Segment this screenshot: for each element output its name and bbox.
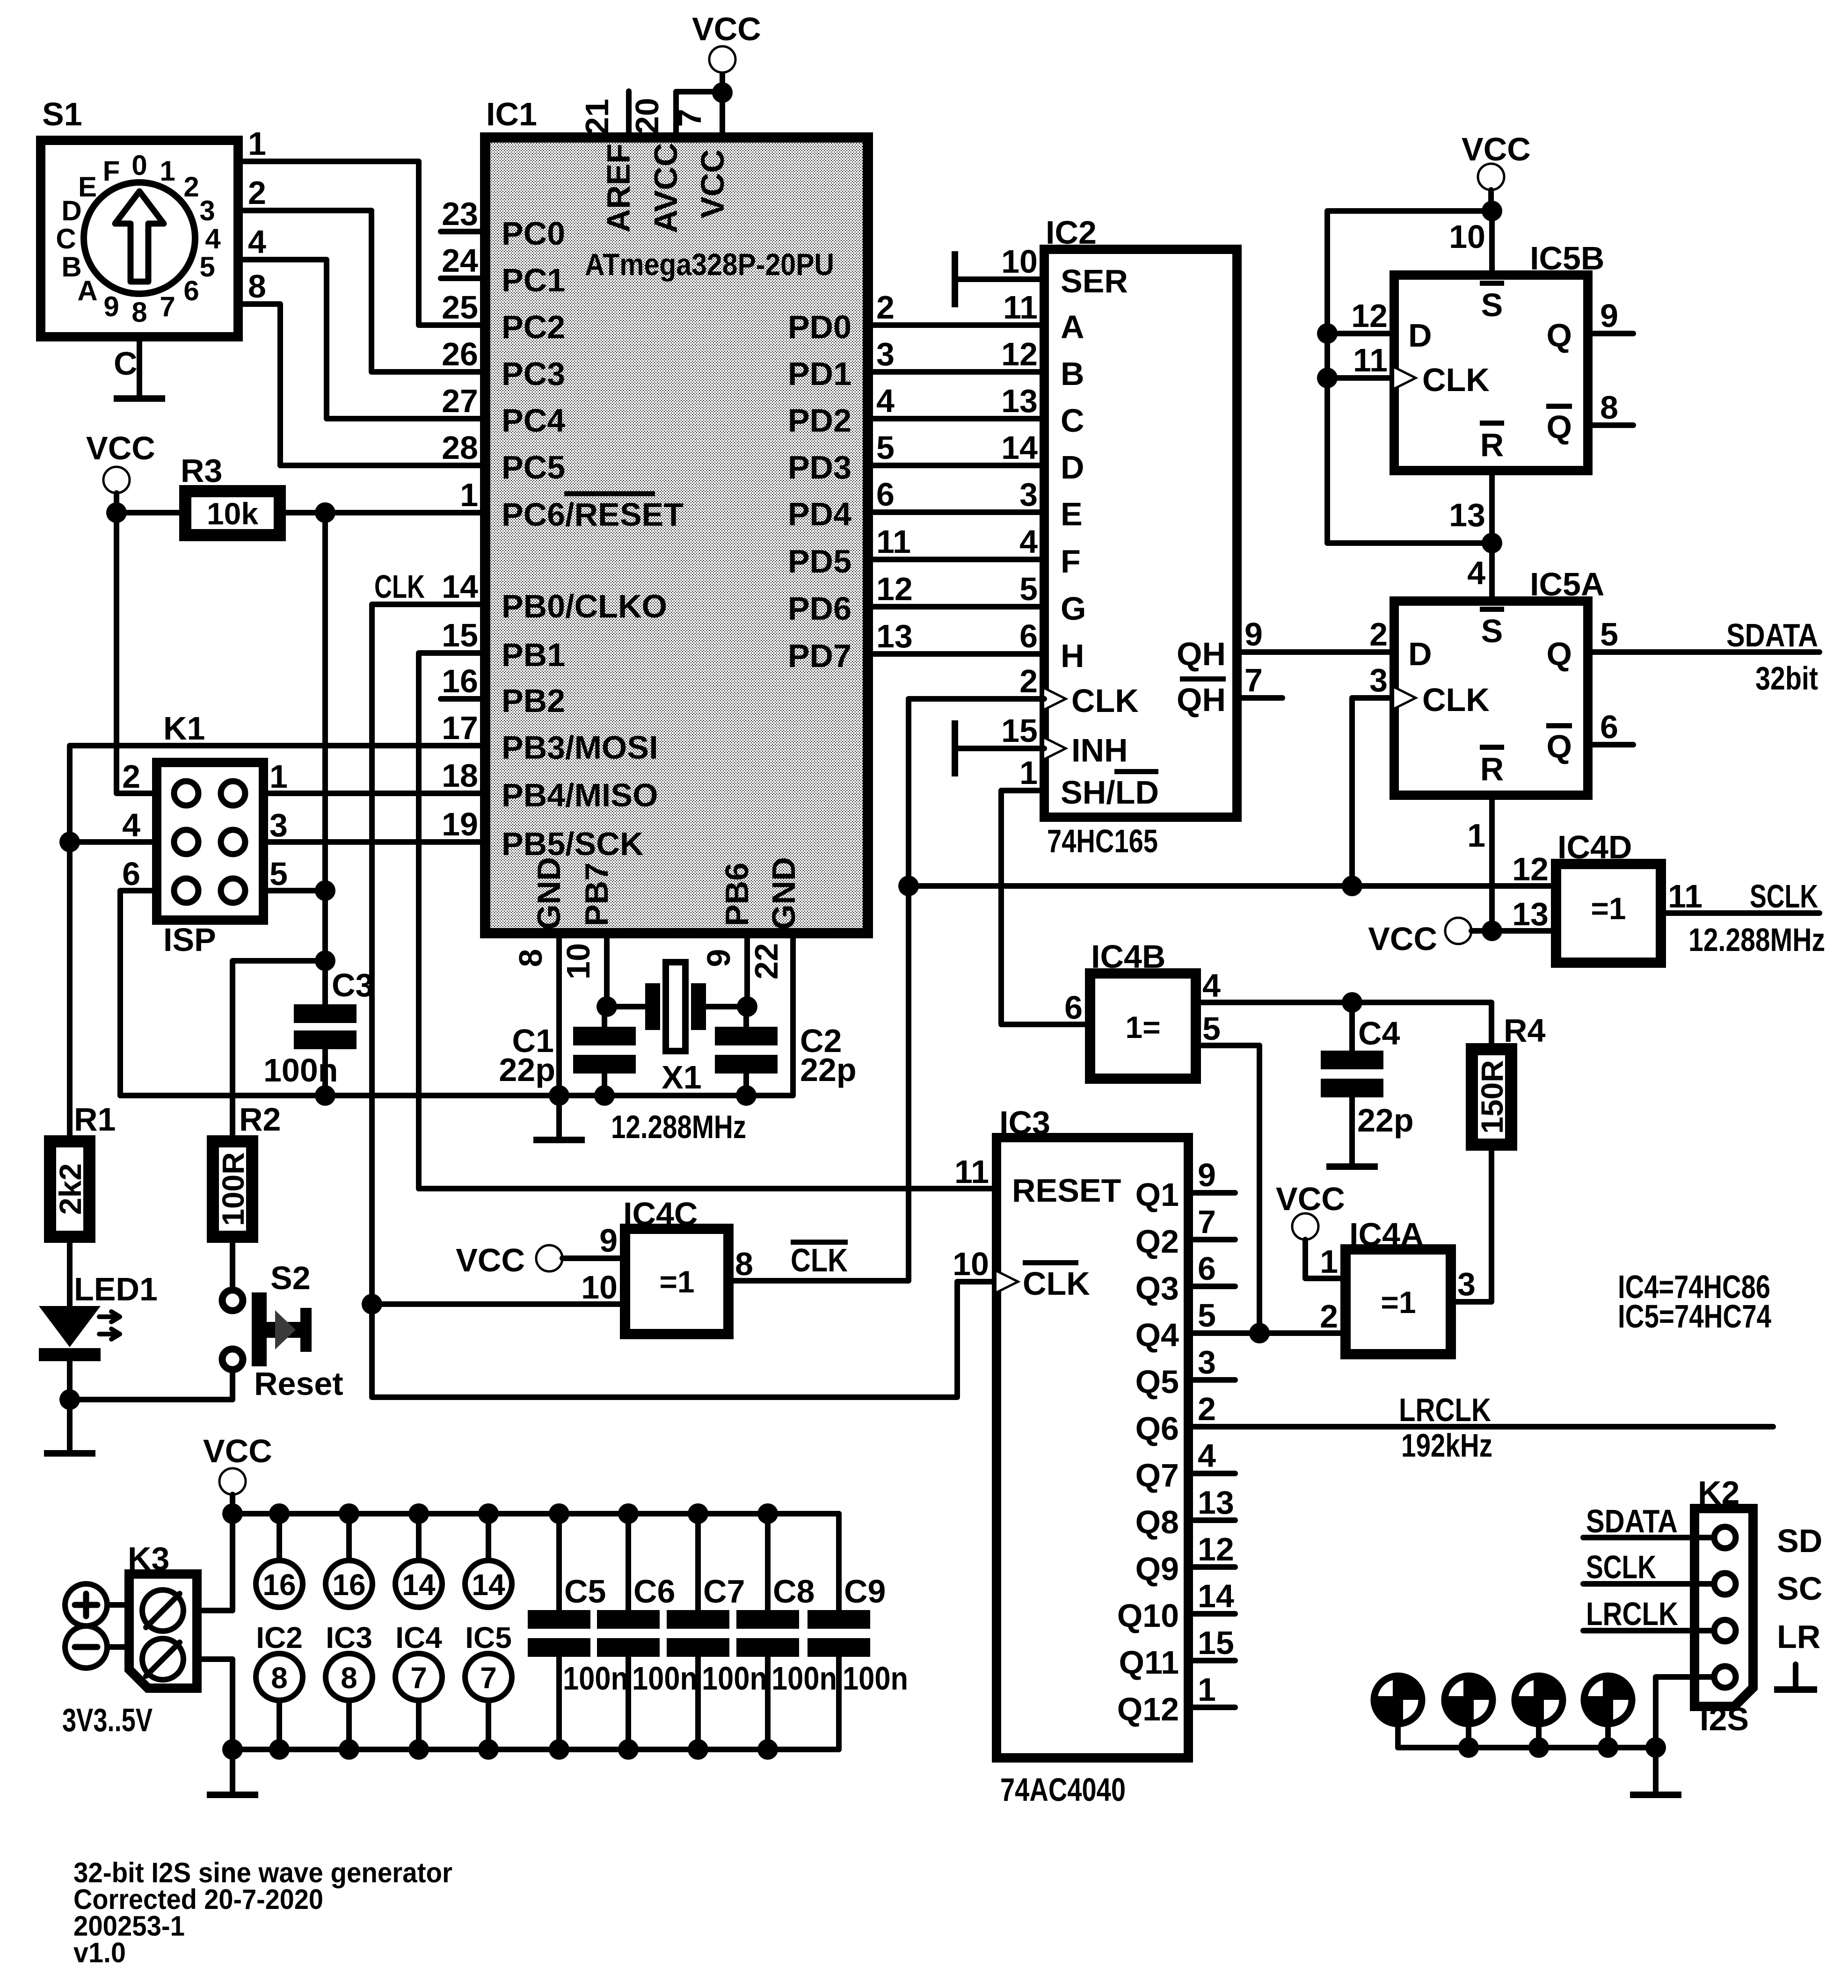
svg-text:VCC: VCC bbox=[203, 1433, 272, 1469]
svg-text:5: 5 bbox=[1019, 571, 1038, 607]
note IC4 IC5 part types bbox=[1618, 1269, 1771, 1335]
power pin IC5 VCC pin 14 bbox=[465, 1514, 512, 1607]
wire R2 bottom to S2 bbox=[230, 1243, 235, 1288]
svg-text:PB6: PB6 bbox=[719, 863, 755, 926]
svg-text:PD1: PD1 bbox=[788, 356, 851, 392]
wire S1 pin 2 to IC1 PC3 bbox=[238, 210, 485, 372]
test point TP1 bbox=[1374, 1676, 1422, 1748]
wire VCC to IC5B S-bar node bbox=[1488, 190, 1494, 211]
wire IC5B R-bar pin 13 stub bbox=[1489, 471, 1495, 543]
svg-text:G: G bbox=[1061, 590, 1086, 627]
wire to IC5B CLK pin 11 bbox=[1327, 375, 1394, 381]
junction Q4 net bbox=[1249, 1323, 1270, 1343]
svg-text:2k2: 2k2 bbox=[53, 1163, 87, 1215]
resistor R3 10k bbox=[179, 452, 286, 541]
IC IC1 ATmega328P-20PU bbox=[374, 96, 913, 979]
ground at IC2 INH bbox=[952, 720, 1044, 776]
wire IC4D output SCLK bbox=[1661, 910, 1819, 916]
junction test point bus bbox=[1458, 1737, 1479, 1758]
svg-text:10: 10 bbox=[1001, 243, 1038, 280]
wire IC2 QH to IC5A D bbox=[1237, 649, 1394, 655]
power pin IC2 VCC pin 16 bbox=[256, 1514, 303, 1607]
svg-text:3: 3 bbox=[1198, 1344, 1216, 1380]
svg-text:PC3: PC3 bbox=[502, 356, 565, 392]
wire R1 to LED1 bbox=[67, 1243, 73, 1306]
svg-text:100n: 100n bbox=[563, 1660, 628, 1697]
svg-text:F: F bbox=[1061, 543, 1081, 580]
junction RESET net at R3 bbox=[315, 502, 335, 523]
wire CLK-bar to IC5A CLK pin 3 bbox=[1352, 698, 1394, 886]
junction MOSI at K1 pin4 bbox=[59, 832, 80, 852]
junction C4 tap bbox=[1342, 992, 1362, 1013]
svg-text:Q: Q bbox=[1547, 409, 1572, 445]
pin stub IC3 Q11 bbox=[1188, 1658, 1235, 1663]
wire IC5B R-bar node to IC5A S-bar pin 4 bbox=[1489, 543, 1495, 601]
VCC symbol at IC4D pin 13 bbox=[1368, 918, 1471, 957]
svg-text:VCC: VCC bbox=[694, 149, 731, 218]
svg-text:12: 12 bbox=[876, 571, 913, 607]
junction VCC rail at C7 bbox=[688, 1503, 708, 1524]
svg-text:IC5: IC5 bbox=[465, 1621, 512, 1654]
svg-text:IC3: IC3 bbox=[326, 1621, 372, 1654]
svg-text:E: E bbox=[1061, 496, 1083, 532]
plus terminal symbol bbox=[65, 1584, 107, 1626]
pin stub IC3 Q7 bbox=[1188, 1471, 1235, 1476]
wire VCC to IC4D pin 13 bbox=[1471, 928, 1556, 934]
wire ground distribution rail bbox=[233, 1747, 839, 1752]
svg-text:QH: QH bbox=[1177, 682, 1226, 718]
ground marker at K2 pin 4 bbox=[1774, 1664, 1817, 1693]
svg-text:S2: S2 bbox=[270, 1260, 311, 1296]
svg-text:100n: 100n bbox=[771, 1660, 837, 1697]
svg-text:1: 1 bbox=[269, 758, 288, 795]
wire S1 pin 1 to IC1 PC2 bbox=[238, 161, 485, 325]
power pin IC2 GND pin 8 bbox=[256, 1654, 303, 1749]
svg-text:3: 3 bbox=[1369, 662, 1388, 698]
junction VCC at IC1 top bbox=[712, 82, 733, 103]
svg-text:PD6: PD6 bbox=[788, 590, 851, 627]
svg-text:9: 9 bbox=[103, 291, 119, 322]
XOR gate IC4A bbox=[1320, 1216, 1476, 1354]
svg-text:A: A bbox=[1061, 309, 1084, 345]
svg-text:6: 6 bbox=[876, 476, 895, 513]
svg-text:VCC: VCC bbox=[1462, 131, 1531, 167]
wire S2 bottom to LED node bbox=[70, 1371, 233, 1400]
svg-text:6: 6 bbox=[1019, 618, 1038, 654]
wire MOSI net down to R1 bbox=[67, 842, 73, 1135]
svg-text:D: D bbox=[1408, 636, 1432, 672]
junction ground rail at IC4 bbox=[408, 1739, 429, 1760]
svg-text:32bit: 32bit bbox=[1755, 660, 1818, 697]
junction VCC rail at C5 bbox=[549, 1503, 569, 1524]
svg-text:PD0: PD0 bbox=[788, 309, 851, 345]
svg-text:R: R bbox=[1480, 427, 1504, 463]
junction ground rail at C6 bbox=[618, 1739, 639, 1760]
wire IC2 SH/LD to IC4B output bbox=[1001, 791, 1090, 1024]
rotary switch S1 bbox=[41, 96, 266, 382]
svg-text:11: 11 bbox=[1668, 878, 1702, 914]
svg-text:4: 4 bbox=[1019, 523, 1038, 560]
XOR gate IC4B bbox=[1064, 938, 1221, 1079]
svg-text:192kHz: 192kHz bbox=[1401, 1427, 1492, 1464]
VCC symbol at IC4A pin 1 bbox=[1276, 1181, 1345, 1240]
wire IC3 Q4 to IC4A pin 2 bbox=[1188, 1330, 1346, 1336]
svg-text:C: C bbox=[114, 345, 138, 382]
svg-text:12: 12 bbox=[1351, 297, 1388, 334]
connector K2 I2S bbox=[1695, 1474, 1753, 1737]
svg-text:Q12: Q12 bbox=[1117, 1691, 1179, 1727]
svg-text:11: 11 bbox=[1003, 289, 1038, 326]
junction crystal left bbox=[597, 996, 617, 1017]
junction VCC rail at IC4 bbox=[408, 1503, 429, 1524]
junction test point bus bbox=[1528, 1737, 1549, 1758]
wire IC1 PD0 to IC2 A bbox=[868, 322, 1044, 328]
svg-text:PC1: PC1 bbox=[502, 262, 565, 298]
junction IC5B CLK tap bbox=[1317, 368, 1338, 388]
wire to IC5B D pin 12 bbox=[1327, 331, 1394, 336]
wire K3 bottom to ground rail bbox=[197, 1659, 233, 1749]
svg-text:PC5: PC5 bbox=[502, 449, 565, 486]
wire IC1 PD2 to IC2 C bbox=[868, 416, 1044, 421]
svg-text:=1: =1 bbox=[659, 1264, 694, 1299]
power pin IC3 GND pin 8 bbox=[326, 1654, 372, 1749]
svg-text:18: 18 bbox=[442, 757, 478, 794]
junction CLK net at IC4C input bbox=[362, 1294, 382, 1314]
svg-text:11: 11 bbox=[954, 1154, 989, 1190]
svg-text:3V3..5V: 3V3..5V bbox=[62, 1702, 153, 1738]
svg-text:I2S: I2S bbox=[1700, 1701, 1749, 1737]
wire K1 pin5 to RESET net bbox=[263, 888, 325, 893]
svg-text:74HC165: 74HC165 bbox=[1047, 823, 1158, 859]
XOR gate IC4C bbox=[581, 1196, 753, 1334]
svg-text:13: 13 bbox=[1198, 1484, 1234, 1521]
svg-text:VCC: VCC bbox=[692, 11, 761, 47]
wire IC1 pin10 PB7 to crystal bbox=[604, 933, 610, 1007]
svg-text:C3: C3 bbox=[332, 967, 373, 1003]
pin stub IC3 Q1 bbox=[1188, 1190, 1235, 1196]
junction ground rail at C5 bbox=[549, 1739, 569, 1760]
svg-text:K1: K1 bbox=[163, 710, 205, 747]
wire S1 pin 8 to IC1 PC5 bbox=[238, 304, 485, 465]
svg-text:11: 11 bbox=[876, 523, 911, 560]
svg-text:23: 23 bbox=[442, 196, 478, 232]
svg-text:12: 12 bbox=[1001, 336, 1038, 372]
svg-text:CLK: CLK bbox=[1023, 1265, 1090, 1302]
wire IC5B preset rail left/top bbox=[1327, 211, 1492, 543]
svg-text:Q2: Q2 bbox=[1135, 1223, 1179, 1260]
svg-text:5: 5 bbox=[269, 856, 288, 892]
svg-text:8: 8 bbox=[735, 1246, 753, 1282]
svg-text:SCLK: SCLK bbox=[1586, 1549, 1656, 1585]
svg-text:INH: INH bbox=[1071, 732, 1128, 769]
svg-text:IC1: IC1 bbox=[486, 96, 537, 132]
flip-flop IC5B bbox=[1351, 218, 1618, 533]
junction RESET/C3/R2 node bbox=[315, 950, 335, 971]
svg-text:C9: C9 bbox=[844, 1573, 886, 1610]
wire R3 right to IC1 pin1 RESET bbox=[286, 510, 485, 515]
capacitor C8 100n bbox=[736, 1514, 837, 1749]
svg-text:VCC: VCC bbox=[456, 1242, 525, 1278]
wire IC2 CLK pin 2 to CLK-bar net bbox=[909, 699, 1044, 886]
wire S1 common to ground bbox=[137, 337, 142, 395]
wire ground rail under IC1 bbox=[120, 933, 793, 1096]
svg-text:LR: LR bbox=[1777, 1618, 1820, 1655]
resistor R1 2k2 bbox=[44, 1101, 116, 1243]
capacitor C3 100n bbox=[263, 961, 373, 1096]
svg-text:4: 4 bbox=[1198, 1437, 1216, 1474]
svg-text:C: C bbox=[56, 223, 76, 254]
junction IC5A R-bar / IC4D pin13 / VCC bbox=[1482, 921, 1502, 941]
svg-text:3: 3 bbox=[269, 807, 288, 843]
pin stub IC5B Q-bar pin 8 bbox=[1588, 422, 1633, 428]
svg-text:22p: 22p bbox=[1357, 1102, 1414, 1139]
svg-text:Q6: Q6 bbox=[1135, 1410, 1179, 1447]
IC IC2 74HC165 bbox=[1001, 214, 1263, 859]
svg-text:10: 10 bbox=[953, 1246, 989, 1282]
svg-text:7: 7 bbox=[160, 291, 175, 322]
svg-text:ATmega328P-20PU: ATmega328P-20PU bbox=[585, 247, 834, 282]
svg-text:14: 14 bbox=[442, 568, 478, 605]
svg-text:F: F bbox=[103, 155, 120, 187]
wire plus to K3 bbox=[107, 1602, 129, 1608]
svg-text:8: 8 bbox=[1600, 389, 1618, 426]
junction VCC rail at IC5 bbox=[478, 1503, 499, 1524]
svg-text:13: 13 bbox=[1512, 896, 1549, 932]
junction ground rail at IC2 bbox=[269, 1739, 290, 1760]
svg-text:R: R bbox=[1480, 751, 1504, 787]
svg-text:D: D bbox=[1061, 449, 1084, 486]
svg-text:Q7: Q7 bbox=[1135, 1457, 1179, 1494]
svg-text:1=: 1= bbox=[1125, 1010, 1160, 1045]
svg-text:H: H bbox=[1061, 638, 1084, 674]
wire S1 pin 4 to IC1 PC4 bbox=[238, 260, 485, 419]
svg-text:1: 1 bbox=[160, 155, 175, 187]
svg-text:GND: GND bbox=[531, 857, 567, 930]
svg-text:=1: =1 bbox=[1381, 1285, 1416, 1320]
wire IC3 Q6 output LRCLK bbox=[1188, 1424, 1773, 1429]
power pin IC4 VCC pin 14 bbox=[395, 1514, 442, 1607]
svg-text:CLK: CLK bbox=[1422, 362, 1490, 398]
svg-text:C5: C5 bbox=[564, 1573, 606, 1610]
svg-text:4: 4 bbox=[1202, 967, 1221, 1004]
wire R3 left to VCC node bbox=[116, 510, 179, 515]
wire R4 bottom to IC4A output bbox=[1451, 1151, 1491, 1302]
junction ground rail at C8 bbox=[757, 1739, 778, 1760]
svg-text:R3: R3 bbox=[181, 452, 222, 489]
wire IC1 pin8 GND stub bbox=[556, 933, 562, 1096]
svg-text:=1: =1 bbox=[1591, 891, 1626, 926]
svg-text:6: 6 bbox=[1064, 989, 1083, 1026]
wire IC1 pin 20 AVCC to VCC node bbox=[676, 92, 722, 138]
svg-text:14: 14 bbox=[402, 1568, 436, 1602]
svg-text:12.288MHz: 12.288MHz bbox=[1688, 921, 1825, 958]
svg-text:Q10: Q10 bbox=[1117, 1597, 1179, 1634]
svg-text:SH/LD: SH/LD bbox=[1061, 774, 1159, 811]
VCC symbol at IC4C pin 9 bbox=[456, 1242, 562, 1278]
capacitor C5 100n bbox=[528, 1514, 628, 1749]
wire K1 pin6 to ground rail bbox=[120, 891, 157, 1096]
capacitor C7 100n bbox=[667, 1514, 767, 1749]
wire LED1 cathode to ground node bbox=[67, 1361, 73, 1400]
svg-text:S1: S1 bbox=[42, 96, 82, 132]
svg-text:10: 10 bbox=[581, 1269, 618, 1306]
wire SDATA to K2 bbox=[1583, 1535, 1714, 1540]
svg-text:4: 4 bbox=[248, 224, 266, 260]
svg-text:R1: R1 bbox=[74, 1101, 116, 1138]
junction CLK-bar at IC2 branch bbox=[898, 876, 919, 896]
junction VCC rail at C6 bbox=[618, 1503, 639, 1524]
svg-text:8: 8 bbox=[512, 949, 549, 967]
wire K3 top to VCC rail bbox=[197, 1514, 233, 1611]
svg-text:1: 1 bbox=[1320, 1243, 1338, 1280]
svg-text:LRCLK: LRCLK bbox=[1399, 1392, 1491, 1428]
net label LRCLK 192kHz bbox=[1399, 1392, 1492, 1464]
svg-text:Q: Q bbox=[1547, 317, 1572, 354]
svg-text:2: 2 bbox=[876, 289, 895, 326]
test point TP2 bbox=[1445, 1676, 1492, 1748]
svg-text:VCC: VCC bbox=[1368, 921, 1437, 957]
svg-text:0: 0 bbox=[131, 150, 147, 181]
pin stub IC3 Q2 bbox=[1188, 1237, 1235, 1242]
connector K3 power terminal bbox=[128, 1540, 197, 1688]
svg-text:PC2: PC2 bbox=[502, 309, 565, 345]
junction ground rail at IC5 bbox=[478, 1739, 499, 1760]
svg-text:6: 6 bbox=[1600, 709, 1618, 745]
svg-text:25: 25 bbox=[442, 289, 478, 326]
svg-text:100n: 100n bbox=[263, 1052, 338, 1088]
svg-text:5: 5 bbox=[876, 429, 895, 466]
net label SCLK 12.288MHz bbox=[1688, 878, 1825, 958]
wire VCC to IC4C pin 9 bbox=[562, 1255, 625, 1261]
svg-text:1: 1 bbox=[1198, 1671, 1216, 1708]
svg-text:8: 8 bbox=[248, 268, 266, 305]
svg-text:CLK: CLK bbox=[374, 568, 425, 605]
svg-text:26: 26 bbox=[442, 336, 478, 372]
pin stub IC1 pin 23 PC0 bbox=[441, 229, 485, 234]
wire minus to K3 bbox=[107, 1644, 129, 1650]
svg-text:PB7: PB7 bbox=[578, 863, 615, 926]
junction ground bus riser bbox=[1645, 1737, 1666, 1758]
pin stub IC3 Q9 bbox=[1188, 1564, 1235, 1570]
svg-text:1: 1 bbox=[1019, 755, 1038, 791]
wire RESET net vertical bbox=[322, 513, 328, 961]
svg-text:PC6/RESET: PC6/RESET bbox=[502, 496, 684, 533]
svg-text:8: 8 bbox=[341, 1661, 357, 1695]
svg-text:1: 1 bbox=[1467, 817, 1485, 854]
svg-text:SER: SER bbox=[1061, 263, 1128, 299]
svg-text:3: 3 bbox=[1019, 476, 1038, 513]
junction C1 ground bbox=[594, 1085, 615, 1106]
capacitor C1 22p bbox=[499, 1007, 636, 1096]
svg-text:4: 4 bbox=[122, 807, 140, 843]
svg-text:5: 5 bbox=[1202, 1010, 1221, 1047]
svg-text:X1: X1 bbox=[662, 1059, 702, 1096]
svg-text:9: 9 bbox=[700, 949, 737, 967]
svg-text:15: 15 bbox=[1001, 712, 1038, 749]
pin stub IC3 Q3 bbox=[1188, 1284, 1235, 1289]
LED LED1 bbox=[39, 1271, 158, 1361]
svg-text:Q9: Q9 bbox=[1135, 1551, 1179, 1587]
svg-text:LED1: LED1 bbox=[74, 1271, 158, 1307]
svg-text:10: 10 bbox=[560, 943, 597, 979]
junction VCC rail at IC2 bbox=[269, 1503, 290, 1524]
svg-text:16: 16 bbox=[442, 663, 478, 699]
svg-text:2: 2 bbox=[1369, 616, 1388, 653]
ground at IC2 SER bbox=[952, 251, 1044, 307]
svg-text:AVCC: AVCC bbox=[648, 143, 684, 233]
svg-text:PB1: PB1 bbox=[502, 637, 565, 673]
junction CLK-bar at IC5A CLK branch bbox=[1342, 876, 1362, 896]
svg-text:5: 5 bbox=[1600, 616, 1618, 653]
svg-text:3: 3 bbox=[876, 336, 895, 372]
svg-text:4: 4 bbox=[205, 223, 221, 254]
svg-text:24: 24 bbox=[442, 242, 478, 279]
svg-text:3: 3 bbox=[1457, 1266, 1476, 1302]
wire IC4B pin 4 to R4 top bbox=[1196, 1002, 1491, 1043]
svg-text:12: 12 bbox=[1198, 1531, 1234, 1567]
wire IC4B pin 5 to Q4 net bbox=[1196, 1045, 1259, 1333]
wire IC1 pin 7 to VCC symbol bbox=[720, 73, 725, 138]
svg-text:VCC: VCC bbox=[86, 430, 155, 466]
svg-text:SDATA: SDATA bbox=[1726, 617, 1818, 653]
svg-text:PB5/SCK: PB5/SCK bbox=[502, 826, 643, 862]
svg-text:PD3: PD3 bbox=[788, 449, 851, 486]
svg-text:C7: C7 bbox=[703, 1573, 745, 1610]
svg-text:12: 12 bbox=[1512, 851, 1549, 887]
svg-text:14: 14 bbox=[1198, 1578, 1234, 1614]
svg-text:PB3/MOSI: PB3/MOSI bbox=[502, 729, 658, 766]
svg-text:100n: 100n bbox=[632, 1660, 698, 1697]
junction IC5B D tap bbox=[1317, 323, 1338, 344]
title block text bbox=[73, 1857, 452, 1968]
svg-text:1: 1 bbox=[248, 125, 266, 162]
wire VCC to R3 node bbox=[114, 493, 119, 513]
wire VCC distribution rail bbox=[233, 1511, 839, 1516]
svg-text:9: 9 bbox=[1198, 1157, 1216, 1193]
svg-text:S: S bbox=[1481, 287, 1503, 323]
svg-text:100n: 100n bbox=[702, 1660, 767, 1697]
net label SDATA 32bit bbox=[1726, 617, 1818, 697]
wire K1 pin3 to IC1 PB5/SCK bbox=[263, 839, 485, 845]
wire CLK-bar net horizontal bbox=[909, 883, 1556, 889]
svg-text:6: 6 bbox=[183, 275, 199, 306]
capacitor C4 22p bbox=[1321, 1002, 1414, 1163]
svg-text:10k: 10k bbox=[207, 496, 258, 531]
svg-text:B: B bbox=[1061, 356, 1084, 392]
svg-text:C: C bbox=[1061, 402, 1084, 439]
svg-text:Q: Q bbox=[1547, 636, 1572, 672]
svg-text:PD4: PD4 bbox=[788, 496, 851, 532]
svg-text:2: 2 bbox=[1019, 663, 1038, 699]
svg-text:D: D bbox=[1408, 317, 1432, 354]
svg-text:SCLK: SCLK bbox=[1750, 878, 1818, 914]
wire CLK net to IC3 CLK pin 10 bbox=[372, 1282, 997, 1397]
pin stub IC3 Q8 bbox=[1188, 1517, 1235, 1523]
svg-text:19: 19 bbox=[442, 806, 478, 842]
svg-text:5: 5 bbox=[199, 251, 215, 283]
capacitor C2 22p bbox=[715, 1007, 857, 1096]
wire IC1 PB0/CLKO clock net bbox=[372, 604, 485, 1304]
junction VCC/R3/K1 node bbox=[106, 502, 127, 523]
svg-text:13: 13 bbox=[1449, 497, 1485, 533]
svg-text:14: 14 bbox=[1001, 429, 1038, 466]
wire VCC node down to K1 pin 2 bbox=[116, 513, 157, 793]
wire test point ground bus bbox=[1398, 1745, 1656, 1750]
svg-text:7: 7 bbox=[1198, 1204, 1216, 1240]
wire VCC symbol to rail bbox=[230, 1495, 235, 1514]
svg-text:8: 8 bbox=[271, 1661, 288, 1695]
svg-text:7: 7 bbox=[410, 1661, 427, 1695]
